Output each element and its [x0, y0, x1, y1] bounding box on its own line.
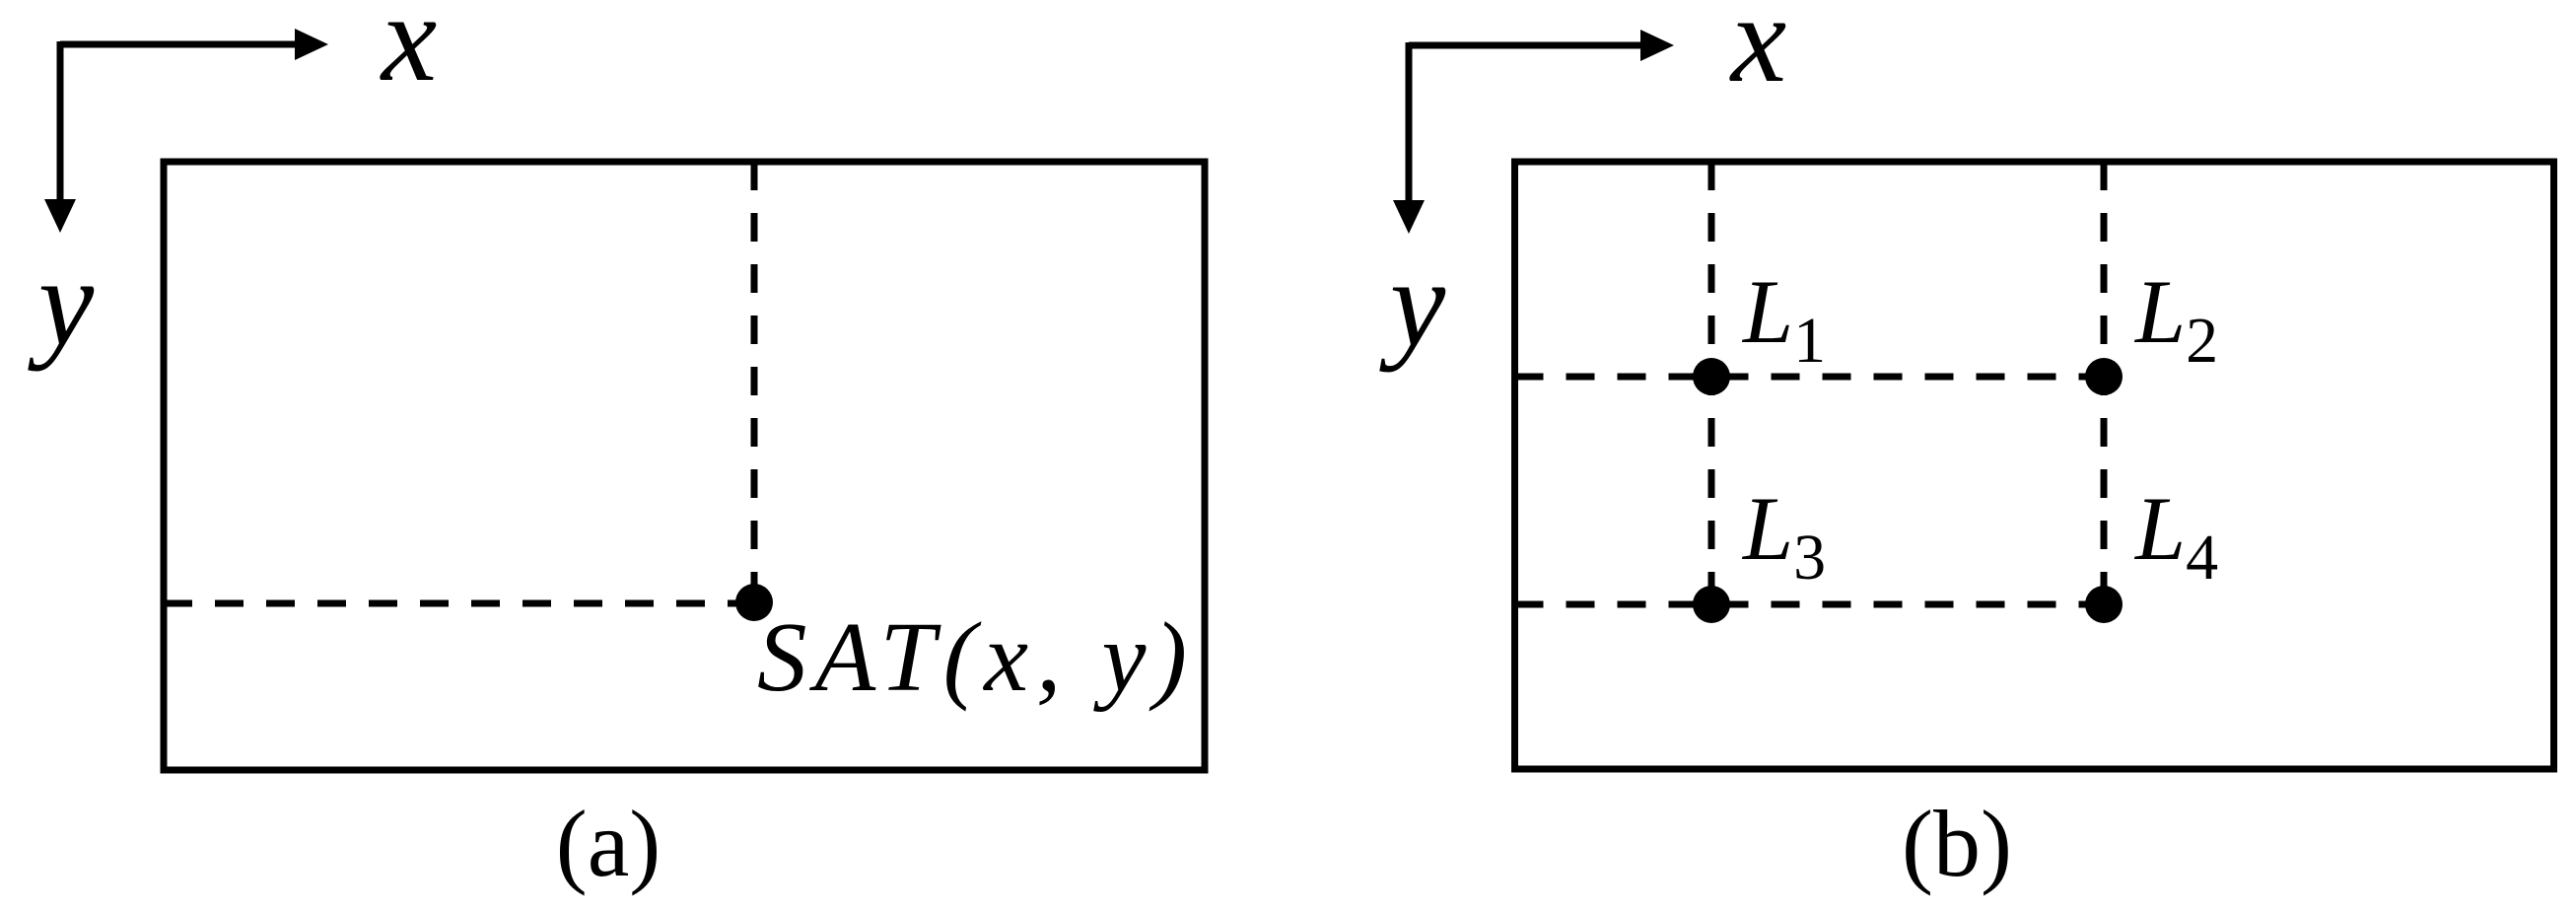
vertical dashed line through L2 and L4 [2101, 162, 2108, 604]
svg-text:y: y [1379, 235, 1446, 373]
point dot L3 [1693, 586, 1730, 623]
vertical dashed line through L1 and L3 [1708, 162, 1715, 604]
svg-text:y: y [28, 234, 95, 372]
svg-text:x: x [1729, 0, 1786, 108]
x-axis arrow (a) [60, 29, 328, 60]
image boundary rectangle (b) [1515, 162, 2554, 769]
vertical dashed line to SAT point (a) [751, 162, 758, 597]
point dot L1 [1693, 358, 1730, 395]
svg-text:SAT(x, y): SAT(x, y) [757, 601, 1195, 712]
y-axis arrow (b) [1393, 42, 1425, 234]
svg-text:x: x [380, 0, 437, 107]
svg-text:(a): (a) [556, 791, 661, 896]
y-axis arrow (a) [44, 41, 76, 233]
horizontal dashed line through L1 and L2 [1515, 374, 2105, 381]
SAT point dot (a) [735, 584, 773, 621]
point dot L2 [2085, 358, 2123, 395]
image boundary rectangle (a) [164, 162, 1205, 770]
point dot L4 [2085, 586, 2123, 623]
x-axis arrow (b) [1409, 30, 1674, 61]
horizontal dashed line to SAT point (a) [164, 600, 749, 607]
horizontal dashed line through L3 and L4 [1515, 601, 2105, 608]
svg-text:(b): (b) [1902, 791, 2012, 896]
